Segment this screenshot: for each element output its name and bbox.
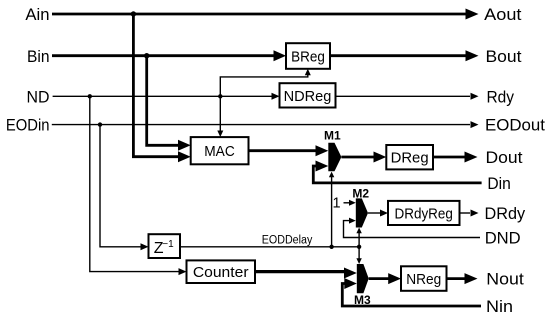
arrowhead Counter into M3	[344, 268, 357, 279]
wire DReg output to Dout	[433, 156, 465, 159]
wire Ain horizontal	[52, 13, 466, 16]
svg-text:EODin: EODin	[6, 116, 50, 135]
register BReg	[286, 43, 330, 69]
mux M1	[328, 143, 341, 172]
wire ND horizontal	[53, 95, 272, 97]
wire DRdyReg output to DRdy	[460, 212, 471, 214]
mux M2	[356, 198, 368, 227]
node ND junction mid	[218, 94, 222, 98]
node EODDelay junction M1	[329, 245, 333, 249]
wire DND to M2	[344, 221, 481, 238]
arrowhead DRdy	[471, 210, 479, 217]
wire Bin horizontal	[52, 54, 274, 57]
arrowhead ND into NDReg	[272, 93, 280, 100]
wire M2 output to DRdyReg	[368, 212, 381, 214]
arrowhead Nin into M3	[344, 278, 357, 289]
wire Ain vertical down to MAC	[133, 14, 179, 157]
delay Z-1	[149, 234, 181, 258]
arrowhead Bin into MAC	[178, 140, 191, 151]
svg-text:Din: Din	[487, 174, 510, 193]
svg-text:M2: M2	[352, 187, 369, 201]
svg-text:Dout: Dout	[486, 148, 523, 167]
node Ain junction	[131, 11, 136, 16]
svg-text:Ain: Ain	[25, 5, 49, 24]
wire EODDelay	[180, 246, 359, 248]
arrowhead into Counter	[179, 268, 187, 275]
wire NReg output to Nout	[447, 277, 466, 280]
wire M2 select from EODDelay	[358, 233, 360, 247]
svg-text:Nout: Nout	[486, 270, 524, 289]
wire EODin to EODout	[52, 124, 470, 126]
arrowhead Dout	[465, 152, 478, 163]
svg-text:MAC: MAC	[204, 143, 235, 160]
wire NDReg output to Rdy	[336, 95, 471, 97]
wire M1 select from EODDelay	[331, 177, 333, 247]
arrowhead Aout	[466, 9, 479, 20]
svg-text:Nin: Nin	[486, 297, 513, 316]
wire M1 output to DReg	[341, 156, 374, 159]
arrowhead Bin into BReg	[274, 50, 287, 61]
arrowhead EODout	[471, 121, 479, 128]
svg-text:M1: M1	[324, 129, 341, 143]
svg-text:EODDelay: EODDelay	[262, 235, 313, 247]
arrowhead M2 select up	[356, 228, 361, 234]
arrowhead into NReg	[388, 273, 401, 284]
wire EODin down to Z-1	[100, 125, 141, 247]
wire ND enable up to BReg	[220, 75, 307, 97]
wire M3 output to NReg	[369, 277, 389, 280]
arrowhead enable into BReg bottom	[305, 69, 311, 76]
arrowhead DND into M2	[349, 218, 356, 224]
svg-text:Aout: Aout	[484, 5, 522, 24]
register NDReg	[280, 83, 336, 107]
svg-text:Bin: Bin	[27, 47, 50, 66]
arrowhead 1 into M2	[349, 200, 356, 206]
register DReg	[386, 145, 433, 169]
arrowhead M3 select down	[356, 258, 361, 264]
arrowhead Nout	[465, 273, 478, 284]
svg-text:Counter: Counter	[193, 264, 249, 281]
svg-text:−1: −1	[162, 239, 174, 250]
wire Counter output to M3	[255, 270, 345, 273]
arrowhead MAC out into M1	[316, 145, 329, 156]
wire M3 select from EODDelay	[358, 247, 360, 259]
wire Din feedback to M1	[313, 166, 481, 183]
svg-text:Rdy: Rdy	[487, 87, 515, 106]
svg-text:NDReg: NDReg	[284, 88, 332, 105]
arrowhead into Z-1	[141, 243, 149, 250]
arrowhead into DReg	[374, 152, 387, 163]
svg-text:Bout: Bout	[486, 47, 522, 66]
mux M3	[357, 264, 369, 293]
wire ND down to Counter	[90, 96, 179, 271]
node EODin junction	[98, 122, 102, 126]
arrowhead into DRdyReg	[380, 210, 388, 217]
arrowhead Rdy	[471, 93, 479, 100]
svg-text:BReg: BReg	[291, 48, 325, 65]
arrowhead Ain into MAC	[178, 151, 191, 162]
svg-text:ND: ND	[27, 87, 50, 106]
node Bin junction	[144, 53, 149, 58]
svg-text:NReg: NReg	[406, 271, 441, 288]
arrowhead Bout	[466, 50, 479, 61]
arrowhead Din into M1	[316, 161, 329, 172]
register NReg	[401, 266, 447, 291]
register DRdyReg	[388, 201, 460, 225]
wire Nin feedback to M3	[342, 284, 481, 307]
wire const 1 to M2	[344, 202, 350, 204]
wire ND down to MAC top	[219, 96, 221, 130]
node ND junction left	[88, 94, 92, 98]
svg-text:DReg: DReg	[391, 150, 429, 167]
wire MAC output to M1	[249, 149, 317, 152]
arrowhead ND into MAC top	[217, 131, 223, 138]
svg-text:DRdy: DRdy	[485, 204, 526, 223]
svg-text:DND: DND	[485, 229, 521, 248]
multiplier-accumulator MAC	[191, 137, 249, 164]
arrowhead M1 select up	[329, 172, 334, 178]
counter Counter	[187, 260, 256, 283]
node EODDelay junction M2/M3	[357, 245, 361, 249]
wire Bin vertical down to MAC	[147, 56, 179, 146]
svg-text:DRdyReg: DRdyReg	[395, 205, 453, 222]
wire BReg output to Bout	[330, 54, 466, 57]
svg-text:EODout: EODout	[485, 116, 545, 135]
svg-text:1: 1	[332, 196, 340, 212]
